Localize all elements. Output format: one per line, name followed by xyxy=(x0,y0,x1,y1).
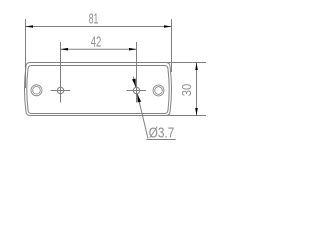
svg-text:42: 42 xyxy=(91,34,102,51)
svg-text:Ø3.7: Ø3.7 xyxy=(149,125,175,142)
svg-text:81: 81 xyxy=(89,11,99,28)
svg-text:30: 30 xyxy=(179,84,194,97)
